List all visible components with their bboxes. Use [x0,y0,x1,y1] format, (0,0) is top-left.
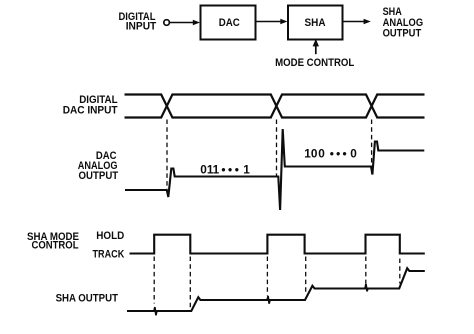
svg-text:SHA OUTPUT: SHA OUTPUT [56,292,119,304]
dashed edge line 1 [153,257,155,304]
transient blip 2 on SHA output [267,296,270,304]
waveform SHA mode control [130,235,425,254]
svg-text:SHA: SHA [305,17,326,29]
svg-text:OUTPUT: OUTPUT [79,170,119,182]
svg-text:HOLD: HOLD [96,230,124,242]
bus waveform digital dac input [125,95,425,118]
waveform DAC analog output [125,129,424,210]
svg-text:011•••1: 011•••1 [200,163,250,177]
transient blip 1 on SHA output [154,307,157,315]
svg-text:100•••0: 100•••0 [304,146,357,160]
block SHA [288,6,343,40]
wire input to DAC [170,22,193,24]
block DAC [201,6,256,40]
svg-text:TRACK: TRACK [93,249,125,261]
wire MODE CONTROL arrow into SHA [315,45,317,55]
wire SHA to output [343,21,364,23]
wire DAC to SHA [256,21,282,23]
dashed timing line 2 [276,120,278,178]
svg-text:DAC INPUT: DAC INPUT [63,104,118,116]
svg-text:INPUT: INPUT [126,21,157,33]
dashed edge line 6 [399,259,401,284]
dashed edge line 3 [266,257,268,296]
waveform SHA output [127,268,425,311]
dashed timing line 3 [371,120,373,175]
dashed edge line 5 [365,257,367,284]
dashed timing line 1 [166,120,168,190]
input terminal circle [164,20,170,26]
svg-text:DAC: DAC [219,17,240,29]
svg-text:MODE CONTROL: MODE CONTROL [275,57,355,69]
dashed edge line 4 [305,257,307,293]
dashed edge line 2 [189,257,191,308]
svg-text:OUTPUT: OUTPUT [383,28,422,40]
transient blip 3 on SHA output [365,284,368,292]
svg-text:CONTROL: CONTROL [32,240,79,252]
